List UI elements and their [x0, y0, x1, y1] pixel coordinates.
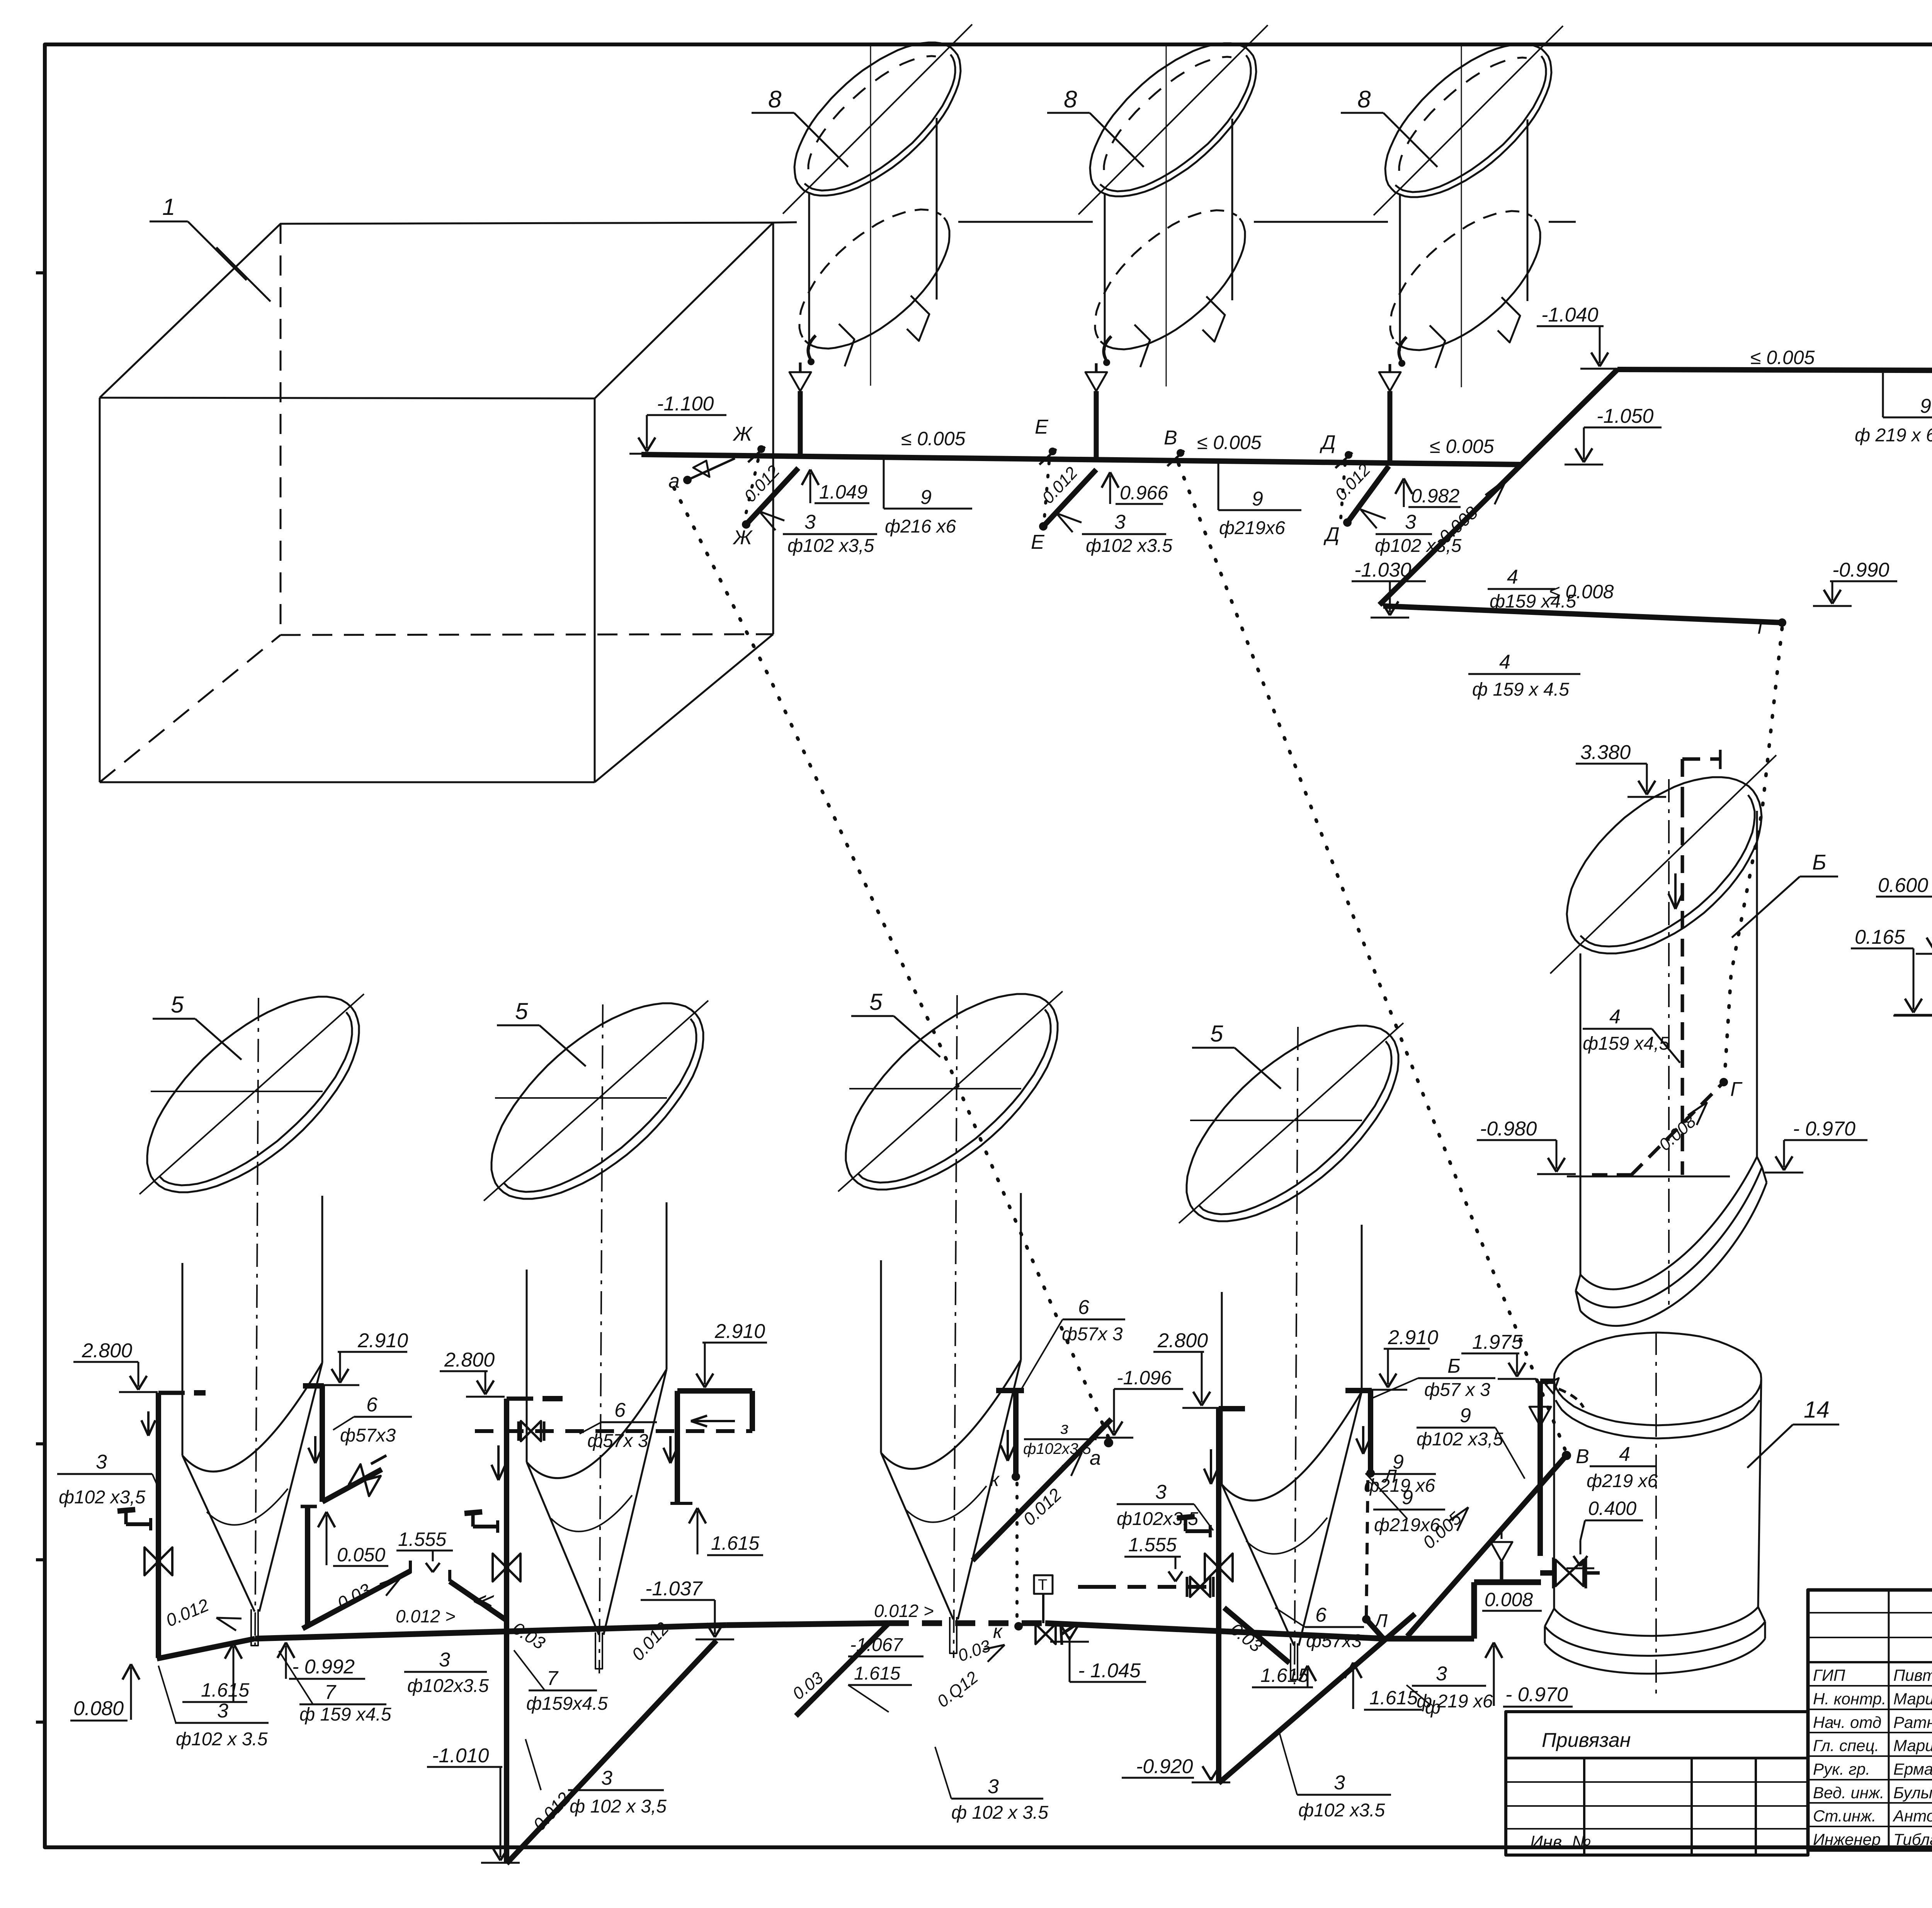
- svg-text:ГИП: ГИП: [1813, 1666, 1845, 1684]
- svg-text:-1.096: -1.096: [1117, 1367, 1172, 1389]
- svg-text:Инженер: Инженер: [1813, 1830, 1881, 1848]
- svg-text:3: 3: [1155, 1481, 1167, 1503]
- svg-text:-1.040: -1.040: [1541, 304, 1599, 326]
- svg-text:- 0.992: - 0.992: [292, 1656, 355, 1678]
- svg-text:6: 6: [1078, 1296, 1089, 1319]
- svg-text:1.555: 1.555: [1128, 1534, 1177, 1556]
- svg-text:8: 8: [1064, 86, 1077, 113]
- svg-text:2.910: 2.910: [357, 1329, 408, 1352]
- svg-text:- 0.970: - 0.970: [1793, 1118, 1855, 1140]
- svg-text:0.050: 0.050: [337, 1544, 385, 1566]
- svg-text:Ст.инж.: Ст.инж.: [1813, 1807, 1876, 1825]
- svg-text:2.800: 2.800: [1157, 1329, 1208, 1352]
- svg-text:-0.990: -0.990: [1832, 559, 1889, 581]
- svg-text:Б: Б: [1812, 850, 1826, 874]
- svg-text:5: 5: [171, 992, 184, 1018]
- svg-text:-0.980: -0.980: [1480, 1118, 1537, 1140]
- svg-text:Рук. гр.: Рук. гр.: [1813, 1760, 1870, 1778]
- svg-text:ф 159 х4.5: ф 159 х4.5: [299, 1704, 391, 1725]
- svg-text:0.008: 0.008: [1485, 1589, 1533, 1610]
- svg-text:0.400: 0.400: [1588, 1498, 1636, 1519]
- svg-text:Гл. спец.: Гл. спец.: [1813, 1736, 1879, 1755]
- svg-text:Антоненкова: Антоненкова: [1892, 1807, 1932, 1825]
- svg-text:Марионков: Марионков: [1893, 1690, 1932, 1708]
- svg-text:Ж: Ж: [732, 526, 753, 549]
- svg-text:Ратников: Ратников: [1893, 1713, 1932, 1731]
- svg-text:9: 9: [920, 486, 932, 509]
- svg-text:Булычева: Булычева: [1893, 1784, 1932, 1802]
- svg-text:Д: Д: [1323, 523, 1340, 546]
- svg-text:0.966: 0.966: [1120, 482, 1168, 504]
- svg-text:3: 3: [1114, 511, 1126, 533]
- svg-text:7: 7: [547, 1667, 559, 1690]
- svg-text:3: 3: [804, 511, 816, 533]
- svg-text:3: 3: [1436, 1663, 1447, 1685]
- svg-text:Марионков: Марионков: [1893, 1736, 1932, 1755]
- svg-text:0.080: 0.080: [73, 1697, 124, 1720]
- svg-text:0.03: 0.03: [1226, 1619, 1266, 1656]
- svg-text:4: 4: [1619, 1443, 1630, 1465]
- svg-text:ф219х6: ф219х6: [1219, 518, 1285, 538]
- svg-text:ф159х4.5: ф159х4.5: [526, 1694, 608, 1714]
- svg-text:ф 219 х6: ф 219 х6: [1417, 1691, 1493, 1712]
- svg-text:2.910: 2.910: [714, 1320, 765, 1343]
- svg-text:ф57х 3: ф57х 3: [587, 1431, 648, 1451]
- svg-text:- 1.045: - 1.045: [1078, 1660, 1141, 1682]
- svg-text:Е: Е: [1031, 531, 1045, 553]
- svg-text:-1.010: -1.010: [432, 1745, 489, 1767]
- svg-text:9: 9: [1393, 1451, 1404, 1473]
- svg-text:3: 3: [988, 1775, 999, 1798]
- svg-text:-1.037: -1.037: [645, 1578, 703, 1600]
- svg-text:Г: Г: [1757, 616, 1770, 638]
- svg-text:4: 4: [1609, 1006, 1621, 1028]
- svg-text:6: 6: [366, 1394, 378, 1416]
- svg-text:3: 3: [217, 1700, 228, 1722]
- svg-text:1.049: 1.049: [819, 481, 867, 503]
- svg-text:ф219 х6: ф219 х6: [1364, 1476, 1435, 1496]
- svg-text:≤ 0.005: ≤ 0.005: [1430, 436, 1494, 457]
- svg-text:5: 5: [515, 998, 528, 1024]
- svg-text:ф 102 х 3.5: ф 102 х 3.5: [951, 1802, 1048, 1823]
- svg-text:Н. контр.: Н. контр.: [1813, 1690, 1886, 1708]
- svg-text:0.012: 0.012: [740, 462, 783, 506]
- svg-text:3: 3: [439, 1649, 450, 1671]
- svg-text:1.975: 1.975: [1472, 1331, 1523, 1353]
- svg-text:ф102 х 3.5: ф102 х 3.5: [176, 1729, 268, 1750]
- svg-text:8: 8: [1357, 86, 1371, 113]
- svg-text:1.615: 1.615: [1369, 1687, 1418, 1709]
- svg-text:≤ 0.005: ≤ 0.005: [901, 428, 966, 449]
- svg-text:ф57х3: ф57х3: [340, 1425, 396, 1446]
- svg-text:-1.030: -1.030: [1354, 559, 1412, 581]
- svg-text:2.800: 2.800: [82, 1340, 132, 1362]
- svg-text:ф 219 х 6: ф 219 х 6: [1855, 425, 1932, 446]
- svg-text:4: 4: [1499, 651, 1510, 673]
- svg-text:0.008: 0.008: [1655, 1112, 1700, 1154]
- svg-text:≤ 0.005: ≤ 0.005: [1750, 347, 1815, 368]
- svg-text:ф216 х6: ф216 х6: [885, 516, 956, 537]
- svg-text:ф 159 х 4.5: ф 159 х 4.5: [1472, 679, 1569, 700]
- svg-text:0.Q12: 0.Q12: [934, 1668, 982, 1711]
- svg-text:1.615: 1.615: [711, 1532, 759, 1554]
- svg-text:1.615: 1.615: [854, 1663, 900, 1684]
- svg-text:ф57 х 3: ф57 х 3: [1424, 1380, 1490, 1400]
- svg-text:5: 5: [1210, 1021, 1223, 1047]
- svg-text:ф102х3.5: ф102х3.5: [407, 1676, 489, 1696]
- svg-text:Пивторак: Пивторак: [1893, 1666, 1932, 1684]
- svg-text:3: 3: [1405, 511, 1416, 533]
- svg-text:0.982: 0.982: [1411, 485, 1459, 507]
- svg-text:8: 8: [768, 86, 782, 113]
- svg-text:Ж: Ж: [732, 423, 753, 445]
- svg-text:ф102х3.5: ф102х3.5: [1117, 1509, 1198, 1529]
- svg-text:Е: Е: [1035, 416, 1049, 438]
- svg-text:з: з: [1060, 1419, 1068, 1438]
- svg-text:0.012 >: 0.012 >: [874, 1601, 934, 1621]
- svg-text:14: 14: [1804, 1397, 1830, 1423]
- svg-text:к: к: [990, 1469, 1000, 1490]
- svg-text:9: 9: [1252, 488, 1263, 510]
- svg-text:0.012: 0.012: [163, 1595, 212, 1631]
- svg-text:6: 6: [614, 1399, 626, 1421]
- svg-text:ф159 х4,5: ф159 х4,5: [1583, 1033, 1670, 1054]
- svg-text:7: 7: [325, 1681, 337, 1704]
- svg-text:ф102 х3,5: ф102 х3,5: [787, 536, 874, 556]
- svg-text:0.600: 0.600: [1878, 874, 1928, 897]
- svg-text:9: 9: [1460, 1404, 1471, 1427]
- svg-text:0.012 >: 0.012 >: [396, 1606, 456, 1626]
- svg-text:6: 6: [1315, 1604, 1327, 1626]
- svg-text:3.380: 3.380: [1580, 741, 1631, 764]
- svg-text:0.165: 0.165: [1855, 926, 1905, 948]
- svg-text:1.555: 1.555: [398, 1528, 446, 1550]
- svg-text:Тиблава: Тиблава: [1893, 1830, 1932, 1848]
- svg-text:Т: Т: [1038, 1576, 1047, 1593]
- svg-text:0.03: 0.03: [789, 1668, 827, 1704]
- svg-text:-1.100: -1.100: [657, 393, 714, 415]
- svg-text:Инв. №: Инв. №: [1530, 1832, 1591, 1852]
- svg-text:1.615: 1.615: [201, 1679, 249, 1701]
- svg-text:- 0.970: - 0.970: [1505, 1683, 1568, 1706]
- svg-text:≤ 0.005: ≤ 0.005: [1197, 432, 1262, 453]
- svg-text:-0.920: -0.920: [1136, 1755, 1193, 1778]
- svg-text:В: В: [1164, 427, 1177, 449]
- svg-text:0.03: 0.03: [509, 1618, 549, 1653]
- svg-text:ф159 х4.5: ф159 х4.5: [1490, 591, 1577, 612]
- svg-text:ф 102 х 3,5: ф 102 х 3,5: [570, 1796, 667, 1817]
- svg-text:5: 5: [869, 989, 883, 1015]
- svg-text:Вед. инж.: Вед. инж.: [1813, 1784, 1884, 1802]
- svg-text:Ермакова: Ермакова: [1893, 1760, 1932, 1778]
- svg-text:а: а: [1090, 1447, 1101, 1469]
- svg-text:3: 3: [1334, 1772, 1345, 1794]
- svg-text:В: В: [1576, 1445, 1589, 1468]
- svg-text:ф219 х6: ф219 х6: [1587, 1471, 1658, 1491]
- svg-text:ф57х3: ф57х3: [1306, 1631, 1362, 1651]
- svg-text:ф102х3,5: ф102х3,5: [1023, 1440, 1092, 1457]
- svg-text:Нач. отд: Нач. отд: [1813, 1713, 1881, 1731]
- svg-text:9: 9: [1920, 395, 1931, 417]
- svg-text:Привязан: Привязан: [1542, 1729, 1631, 1751]
- svg-text:ф102 х3,5: ф102 х3,5: [1417, 1429, 1503, 1450]
- svg-text:Б: Б: [1447, 1355, 1461, 1377]
- svg-text:ф102 х3,5: ф102 х3,5: [59, 1487, 146, 1508]
- svg-text:2.800: 2.800: [444, 1349, 495, 1371]
- svg-text:≪: ≪: [471, 1589, 494, 1612]
- svg-text:к: к: [993, 1620, 1003, 1642]
- svg-text:3: 3: [601, 1767, 612, 1789]
- svg-text:2.910: 2.910: [1388, 1326, 1438, 1349]
- svg-text:Г: Г: [1730, 1078, 1743, 1101]
- svg-text:ф57х 3: ф57х 3: [1062, 1324, 1123, 1345]
- svg-text:Д: Д: [1320, 431, 1336, 454]
- svg-text:4: 4: [1507, 566, 1518, 588]
- svg-text:ф102 х3.5: ф102 х3.5: [1086, 536, 1173, 556]
- svg-text:1: 1: [162, 194, 175, 220]
- svg-text:-1.050: -1.050: [1597, 405, 1654, 427]
- svg-text:3: 3: [96, 1451, 107, 1473]
- svg-text:ф102 х3.5: ф102 х3.5: [1298, 1800, 1385, 1821]
